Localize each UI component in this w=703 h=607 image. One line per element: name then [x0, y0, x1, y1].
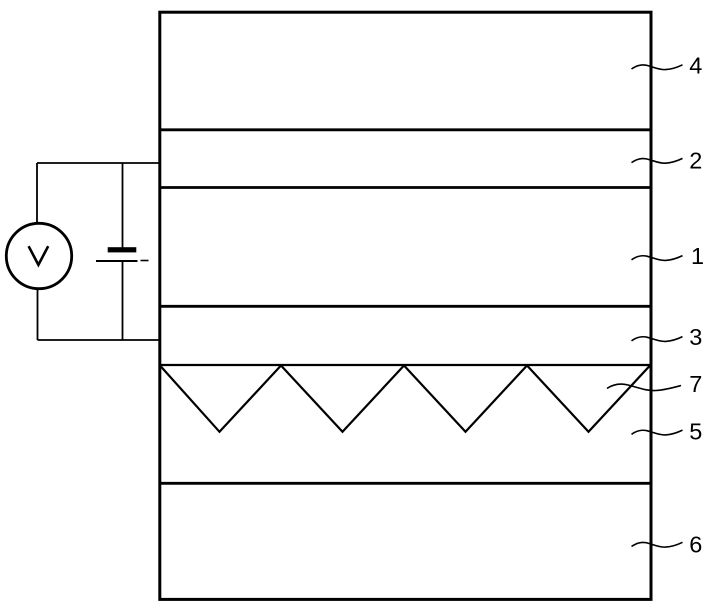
layer boundary 2/1: [159, 186, 652, 189]
leader squiggle 6: [632, 542, 683, 547]
leader squiggle 7: [607, 384, 681, 390]
svg-text:1: 1: [691, 243, 703, 269]
wire: top horizontal from source to stack: [37, 162, 159, 164]
svg-text:2: 2: [689, 148, 702, 174]
voltage source V circle: [6, 223, 71, 288]
leader squiggle 1: [632, 256, 683, 261]
wire: voltmeter top lead: [36, 163, 38, 224]
layer boundary 1/3: [159, 305, 652, 308]
svg-text:4: 4: [689, 53, 702, 79]
svg-text:5: 5: [689, 419, 702, 445]
device stack outline: [160, 12, 651, 599]
battery thin plate dash: [141, 260, 149, 262]
leader squiggle 4: [632, 65, 683, 70]
svg-text:6: 6: [689, 532, 702, 558]
leader squiggle 2: [632, 158, 683, 163]
layer boundary 4/2: [159, 128, 652, 131]
wire: bottom horizontal from source to stack: [38, 339, 160, 341]
wire: battery bottom lead: [122, 261, 124, 340]
wire: battery top lead: [122, 163, 124, 248]
svg-text:7: 7: [689, 371, 702, 397]
battery thin plate: [96, 260, 138, 262]
letter V inside circle: [29, 246, 49, 265]
wire: voltmeter bottom lead: [37, 289, 39, 341]
zigzag interface of layer 7: [160, 366, 650, 432]
layer boundary 5/6: [159, 482, 652, 485]
battery thick plate: [108, 247, 137, 252]
leader squiggle 3: [632, 337, 683, 342]
svg-text:3: 3: [689, 324, 702, 350]
layer boundary 3/7 top of zigzag layer: [159, 364, 652, 366]
leader squiggle 5: [632, 430, 683, 435]
